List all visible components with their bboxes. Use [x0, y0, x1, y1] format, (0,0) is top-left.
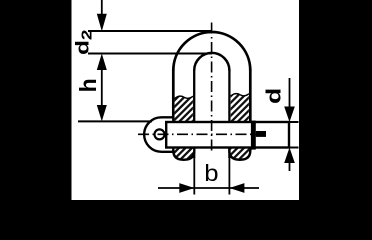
- svg-text:b: b: [204, 161, 218, 186]
- svg-text:h: h: [75, 78, 101, 92]
- svg-text:d: d: [262, 88, 285, 104]
